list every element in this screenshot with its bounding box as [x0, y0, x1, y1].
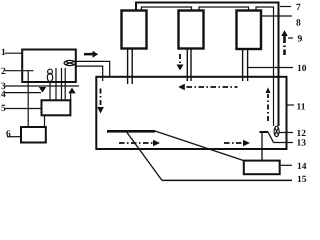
svg-text:7: 7 [296, 3, 301, 13]
svg-text:10: 10 [297, 64, 307, 74]
svg-text:6: 6 [6, 129, 11, 139]
svg-text:11: 11 [297, 102, 306, 112]
svg-text:14: 14 [297, 162, 307, 172]
svg-text:15: 15 [297, 175, 307, 185]
svg-text:13: 13 [297, 139, 307, 149]
svg-text:8: 8 [296, 19, 301, 29]
svg-text:1: 1 [1, 48, 6, 58]
svg-text:2: 2 [1, 67, 6, 77]
svg-text:4: 4 [1, 90, 6, 100]
svg-text:5: 5 [1, 104, 6, 114]
svg-text:12: 12 [297, 129, 307, 139]
svg-text:9: 9 [298, 35, 303, 45]
